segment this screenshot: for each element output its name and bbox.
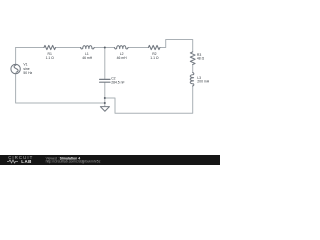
svg-text:http://circuitlab.com/c/ddjjrb: http://circuitlab.com/c/ddjjrbukmhr5z	[46, 160, 101, 164]
svg-text:50 Hz: 50 Hz	[23, 71, 32, 75]
svg-text:46 mH: 46 mH	[82, 56, 93, 60]
svg-text:LAB: LAB	[21, 159, 32, 164]
svg-text:V1: V1	[23, 63, 27, 67]
svg-text:46 mH: 46 mH	[117, 56, 128, 60]
svg-text:48 Ω: 48 Ω	[197, 57, 205, 61]
svg-text:284.5 nF: 284.5 nF	[111, 80, 124, 84]
svg-text:200 mH: 200 mH	[197, 79, 209, 83]
svg-text:1.1 Ω: 1.1 Ω	[150, 56, 159, 60]
svg-text:1.1 Ω: 1.1 Ω	[46, 56, 55, 60]
